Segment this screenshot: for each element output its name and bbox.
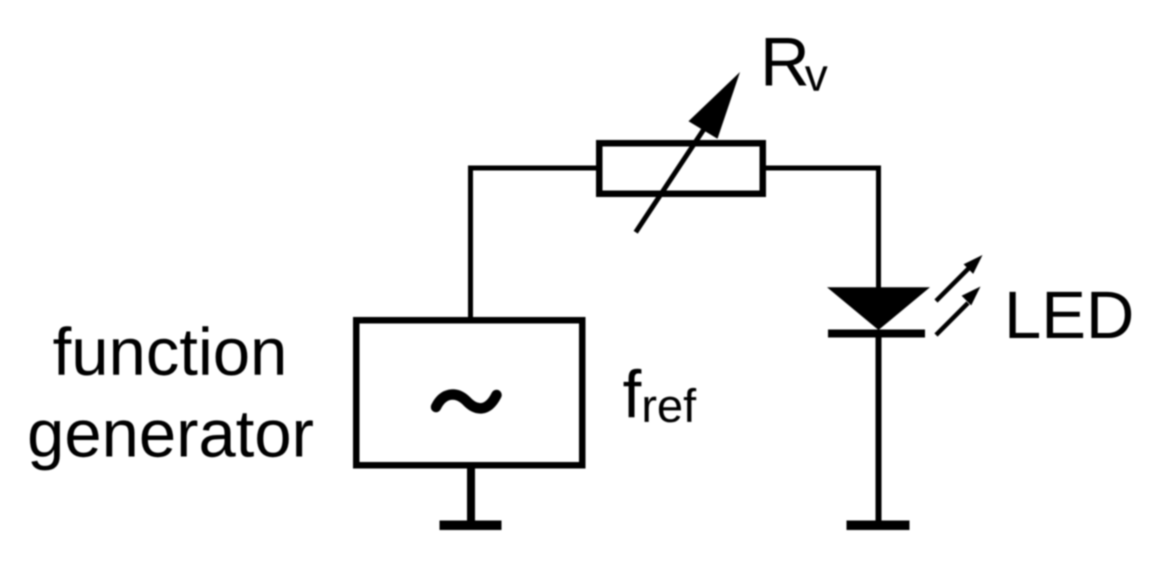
label function (line 1) (54, 326, 283, 375)
label f_ref (624, 369, 642, 418)
label RV (766, 38, 807, 86)
function generator ground stub (467, 466, 475, 526)
wire from function generator top to resistor left terminal (471, 168, 597, 317)
AC sine symbol inside function generator (436, 394, 497, 408)
label generator (line 2) (30, 413, 313, 470)
LED ground bar (847, 521, 910, 531)
wire from LED cathode to ground (876, 333, 882, 525)
resistor RV body (599, 143, 763, 194)
LED light ray arrow lower shaft (936, 303, 968, 335)
LED cathode bar (828, 330, 925, 338)
resistor RV variable-arrow shaft (636, 126, 706, 232)
function generator box (356, 320, 582, 465)
label f_ref subscript ref (644, 388, 696, 423)
function generator ground bar (440, 521, 502, 531)
LED light ray arrow upper head (964, 255, 983, 274)
label LED (1010, 292, 1132, 338)
label RV subscript v (805, 66, 828, 90)
LED anode triangle (827, 287, 930, 330)
LED light ray arrow upper shaft (936, 267, 970, 301)
resistor RV variable-arrow head (689, 72, 741, 139)
LED light ray arrow lower head (962, 287, 981, 306)
wire from resistor right terminal down to LED anode (766, 168, 879, 290)
